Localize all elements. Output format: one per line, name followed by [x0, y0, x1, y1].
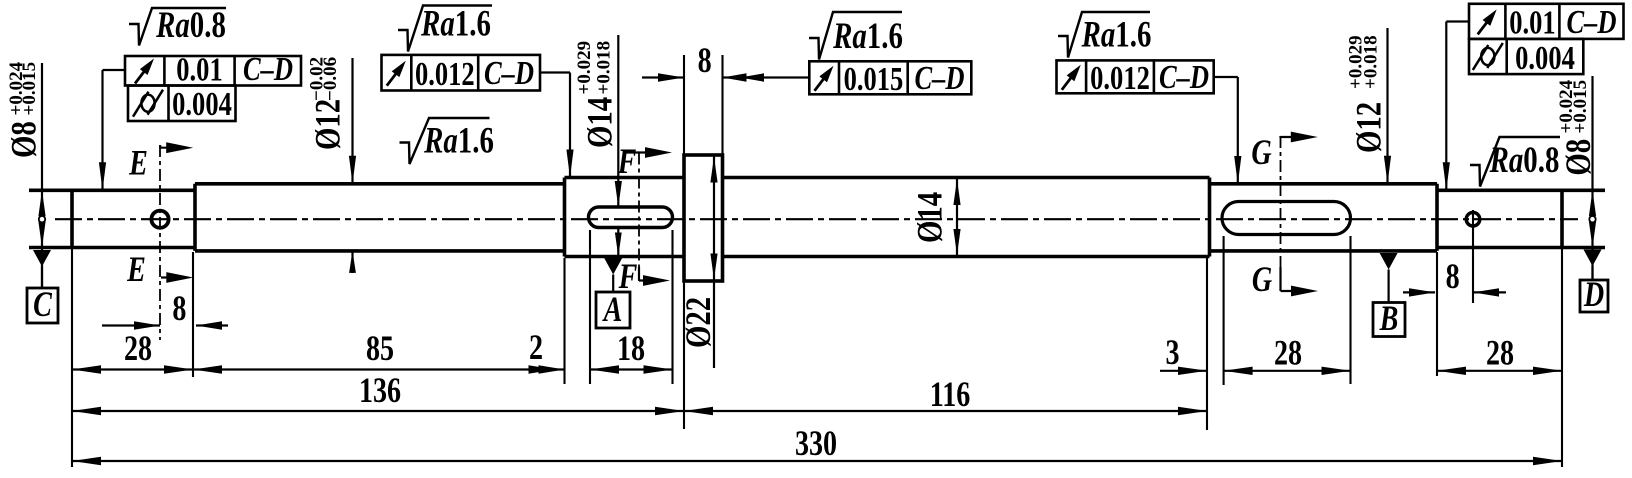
svg-text:28: 28 — [1486, 332, 1514, 372]
svg-text:D: D — [1583, 274, 1604, 314]
svg-text:+0.015: +0.015 — [19, 62, 40, 116]
svg-text:0.01: 0.01 — [1509, 3, 1555, 41]
svg-text:0.004: 0.004 — [172, 85, 232, 123]
svg-text:Ø12: Ø12 — [1350, 102, 1390, 153]
svg-text:C–D: C–D — [914, 59, 964, 97]
svg-text:G: G — [1252, 259, 1272, 299]
svg-text:136: 136 — [359, 370, 401, 410]
svg-text:18: 18 — [617, 328, 645, 368]
svg-text:E: E — [126, 249, 146, 289]
svg-text:+0.018: +0.018 — [593, 41, 614, 95]
svg-text:Ra0.8: Ra0.8 — [155, 5, 226, 46]
svg-text:E: E — [128, 142, 148, 182]
svg-text:85: 85 — [366, 328, 394, 368]
svg-text:0.012: 0.012 — [1090, 59, 1150, 97]
svg-text:+0.018: +0.018 — [1361, 35, 1382, 89]
svg-text:8: 8 — [172, 288, 186, 328]
svg-text:Ø8: Ø8 — [1559, 139, 1599, 176]
svg-text:0.01: 0.01 — [176, 50, 222, 88]
svg-text:0.004: 0.004 — [1515, 39, 1575, 77]
svg-text:G: G — [1251, 132, 1271, 172]
svg-text:B: B — [1379, 298, 1399, 338]
svg-text:116: 116 — [930, 374, 971, 414]
svg-text:0.012: 0.012 — [415, 55, 475, 93]
svg-text:8: 8 — [1446, 256, 1460, 296]
svg-text:Ra1.6: Ra1.6 — [832, 16, 903, 57]
svg-text:C–D: C–D — [484, 54, 534, 92]
svg-text:28: 28 — [1274, 332, 1302, 372]
svg-text:+0.015: +0.015 — [1570, 80, 1591, 134]
svg-text:−0.06: −0.06 — [320, 57, 341, 101]
svg-text:C–D: C–D — [1566, 3, 1616, 41]
svg-text:2: 2 — [529, 327, 543, 367]
svg-text:+0.029: +0.029 — [574, 41, 595, 95]
svg-text:C–D: C–D — [1159, 58, 1209, 96]
svg-text:Ø22: Ø22 — [679, 297, 719, 348]
svg-text:Ra1.6: Ra1.6 — [423, 120, 494, 161]
svg-text:Ø12: Ø12 — [309, 99, 349, 150]
svg-text:C: C — [33, 284, 52, 324]
svg-text:28: 28 — [124, 328, 152, 368]
svg-text:Ra0.8: Ra0.8 — [1489, 140, 1560, 181]
svg-text:Ø14: Ø14 — [911, 192, 951, 243]
svg-text:C–D: C–D — [243, 50, 293, 88]
svg-text:330: 330 — [795, 423, 837, 463]
svg-text:A: A — [602, 289, 622, 329]
svg-text:0.015: 0.015 — [844, 60, 904, 98]
svg-text:Ra1.6: Ra1.6 — [420, 3, 491, 44]
svg-text:Ra1.6: Ra1.6 — [1081, 14, 1152, 55]
svg-text:8: 8 — [698, 40, 712, 80]
svg-text:Ø8: Ø8 — [5, 121, 45, 158]
svg-text:Ø14: Ø14 — [581, 97, 621, 148]
svg-text:3: 3 — [1165, 332, 1179, 372]
